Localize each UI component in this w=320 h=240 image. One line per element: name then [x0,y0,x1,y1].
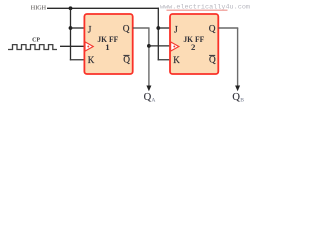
svg-text:K: K [173,55,180,65]
svg-text:Q: Q [209,55,216,65]
wire CP to clock 1 [60,45,85,47]
wire Q1 down to clock2 / QA [148,28,150,87]
svg-text:CP: CP [32,37,40,43]
svg-text:Q: Q [123,55,130,65]
wire Q1 output [133,27,150,29]
wire to J2 [158,27,170,29]
svg-text:K: K [88,55,95,65]
svg-text:1: 1 [105,42,109,52]
wire to K1 [70,59,85,61]
wire Q2 output [219,27,239,29]
svg-text:J: J [88,25,92,35]
wire vertical from HIGH to J1/K1 [70,8,72,60]
junction dot at J1 branch [69,26,73,30]
watermark underline [167,9,228,11]
wire vertical HIGH to J2/K2 [157,8,159,61]
wire to J1 [71,27,85,29]
svg-text:J: J [174,25,178,35]
wire HIGH horizontal [47,7,159,9]
svg-text:Q: Q [144,92,152,103]
clock triangle 2 [171,42,179,51]
svg-text:Q: Q [232,92,240,103]
arrow QB [235,86,240,92]
wire to K2 [158,59,171,61]
clock triangle 1 [85,42,93,51]
wire to clock 2 [149,45,170,47]
junction dot on HIGH wire [69,6,73,10]
svg-text:B: B [240,98,244,104]
svg-text:2: 2 [191,42,196,52]
wire Q2 down to QB [237,28,239,87]
JK flip-flop U1 box [84,14,132,74]
svg-text:Q: Q [209,25,216,35]
junction dot at J2 branch [156,26,160,30]
svg-text:A: A [151,98,155,104]
arrow QA [146,86,151,92]
CP clock waveform [8,45,57,50]
junction dot clock2 branch [147,44,151,48]
svg-text:HIGH: HIGH [31,6,47,12]
svg-text:Q: Q [123,25,130,35]
JK flip-flop U2 box [170,14,218,74]
